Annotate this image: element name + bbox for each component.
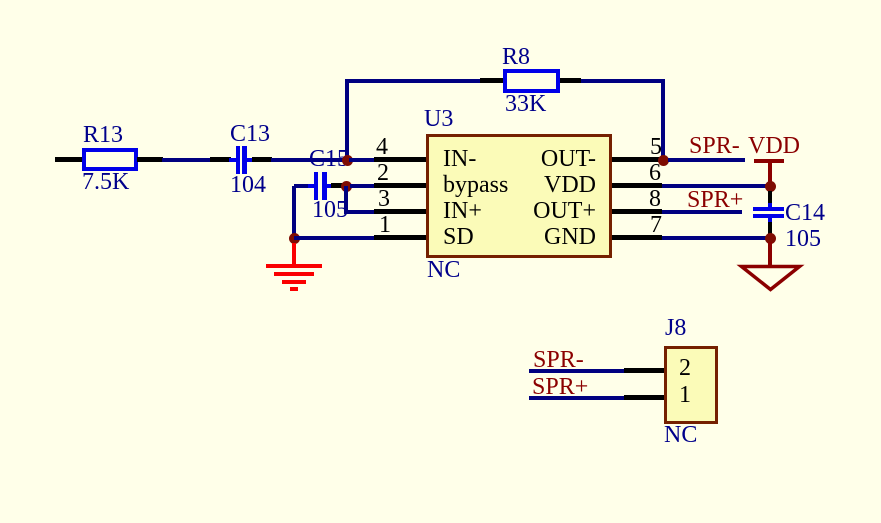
pin 8	[612, 209, 662, 214]
pin 5	[612, 157, 662, 162]
wire: vertical C15 left to SD row	[292, 186, 296, 240]
node: OUT- junction	[658, 155, 669, 166]
node: IN- junction	[342, 155, 353, 166]
power VDD symbol	[754, 159, 784, 163]
resistor R13	[82, 148, 138, 171]
wire: down to ground triangle (maroon)	[768, 242, 772, 266]
wire: pin6 to VDD node (navy)	[662, 184, 768, 188]
wire: main input lead (black)	[55, 157, 83, 162]
node: C14/GND junction	[765, 233, 776, 244]
wire: R13 to C13 (navy)	[162, 158, 211, 162]
wire: vertical from R8 left down to IN- node	[345, 79, 349, 160]
connector J8	[664, 346, 718, 424]
net label SPR-	[689, 135, 740, 158]
pin names	[443, 148, 476, 171]
pin 2	[374, 183, 426, 188]
capacitor C14	[768, 191, 772, 204]
pin 6	[612, 183, 662, 188]
node: SD/ground junction	[289, 233, 300, 244]
pin 7	[612, 235, 662, 240]
wire: ground node to pin1 (navy)	[294, 236, 375, 240]
ground (red, left)	[292, 243, 296, 265]
wire: C13 to node (navy)	[271, 158, 347, 162]
capacitor C15	[294, 184, 311, 188]
capacitor C13	[210, 157, 231, 162]
node: VDD junction	[765, 181, 776, 192]
wire: pin7 to ground node (navy)	[662, 236, 768, 240]
pin 4	[374, 157, 426, 162]
wire: node to pin4 (navy)	[349, 158, 375, 162]
wire: SPR+ to J8 pin1 (navy)	[529, 396, 624, 400]
wire: SPR- net (navy)	[668, 158, 745, 162]
net label SPR+	[687, 189, 743, 212]
wire: pin8 SPR+ net (navy)	[662, 210, 742, 214]
wire: to pin3 (navy)	[344, 210, 375, 214]
pin 1	[374, 235, 426, 240]
wire: R13 right lead (black)	[137, 157, 163, 162]
capacitor C15 label	[309, 148, 349, 171]
wire: vertical bypass to IN+ row	[344, 186, 348, 214]
node: bypass junction	[341, 181, 352, 192]
pin 3	[374, 209, 426, 214]
op-amp U3 body	[426, 134, 612, 258]
wire: bypass node to pin2 (navy)	[350, 184, 375, 188]
wire: SPR- to J8 pin2 (navy)	[529, 369, 624, 373]
resistor R8	[345, 79, 480, 83]
wire: vertical from R8 right down to OUT- node	[661, 79, 665, 160]
ground (triangle, right)	[736, 261, 806, 295]
